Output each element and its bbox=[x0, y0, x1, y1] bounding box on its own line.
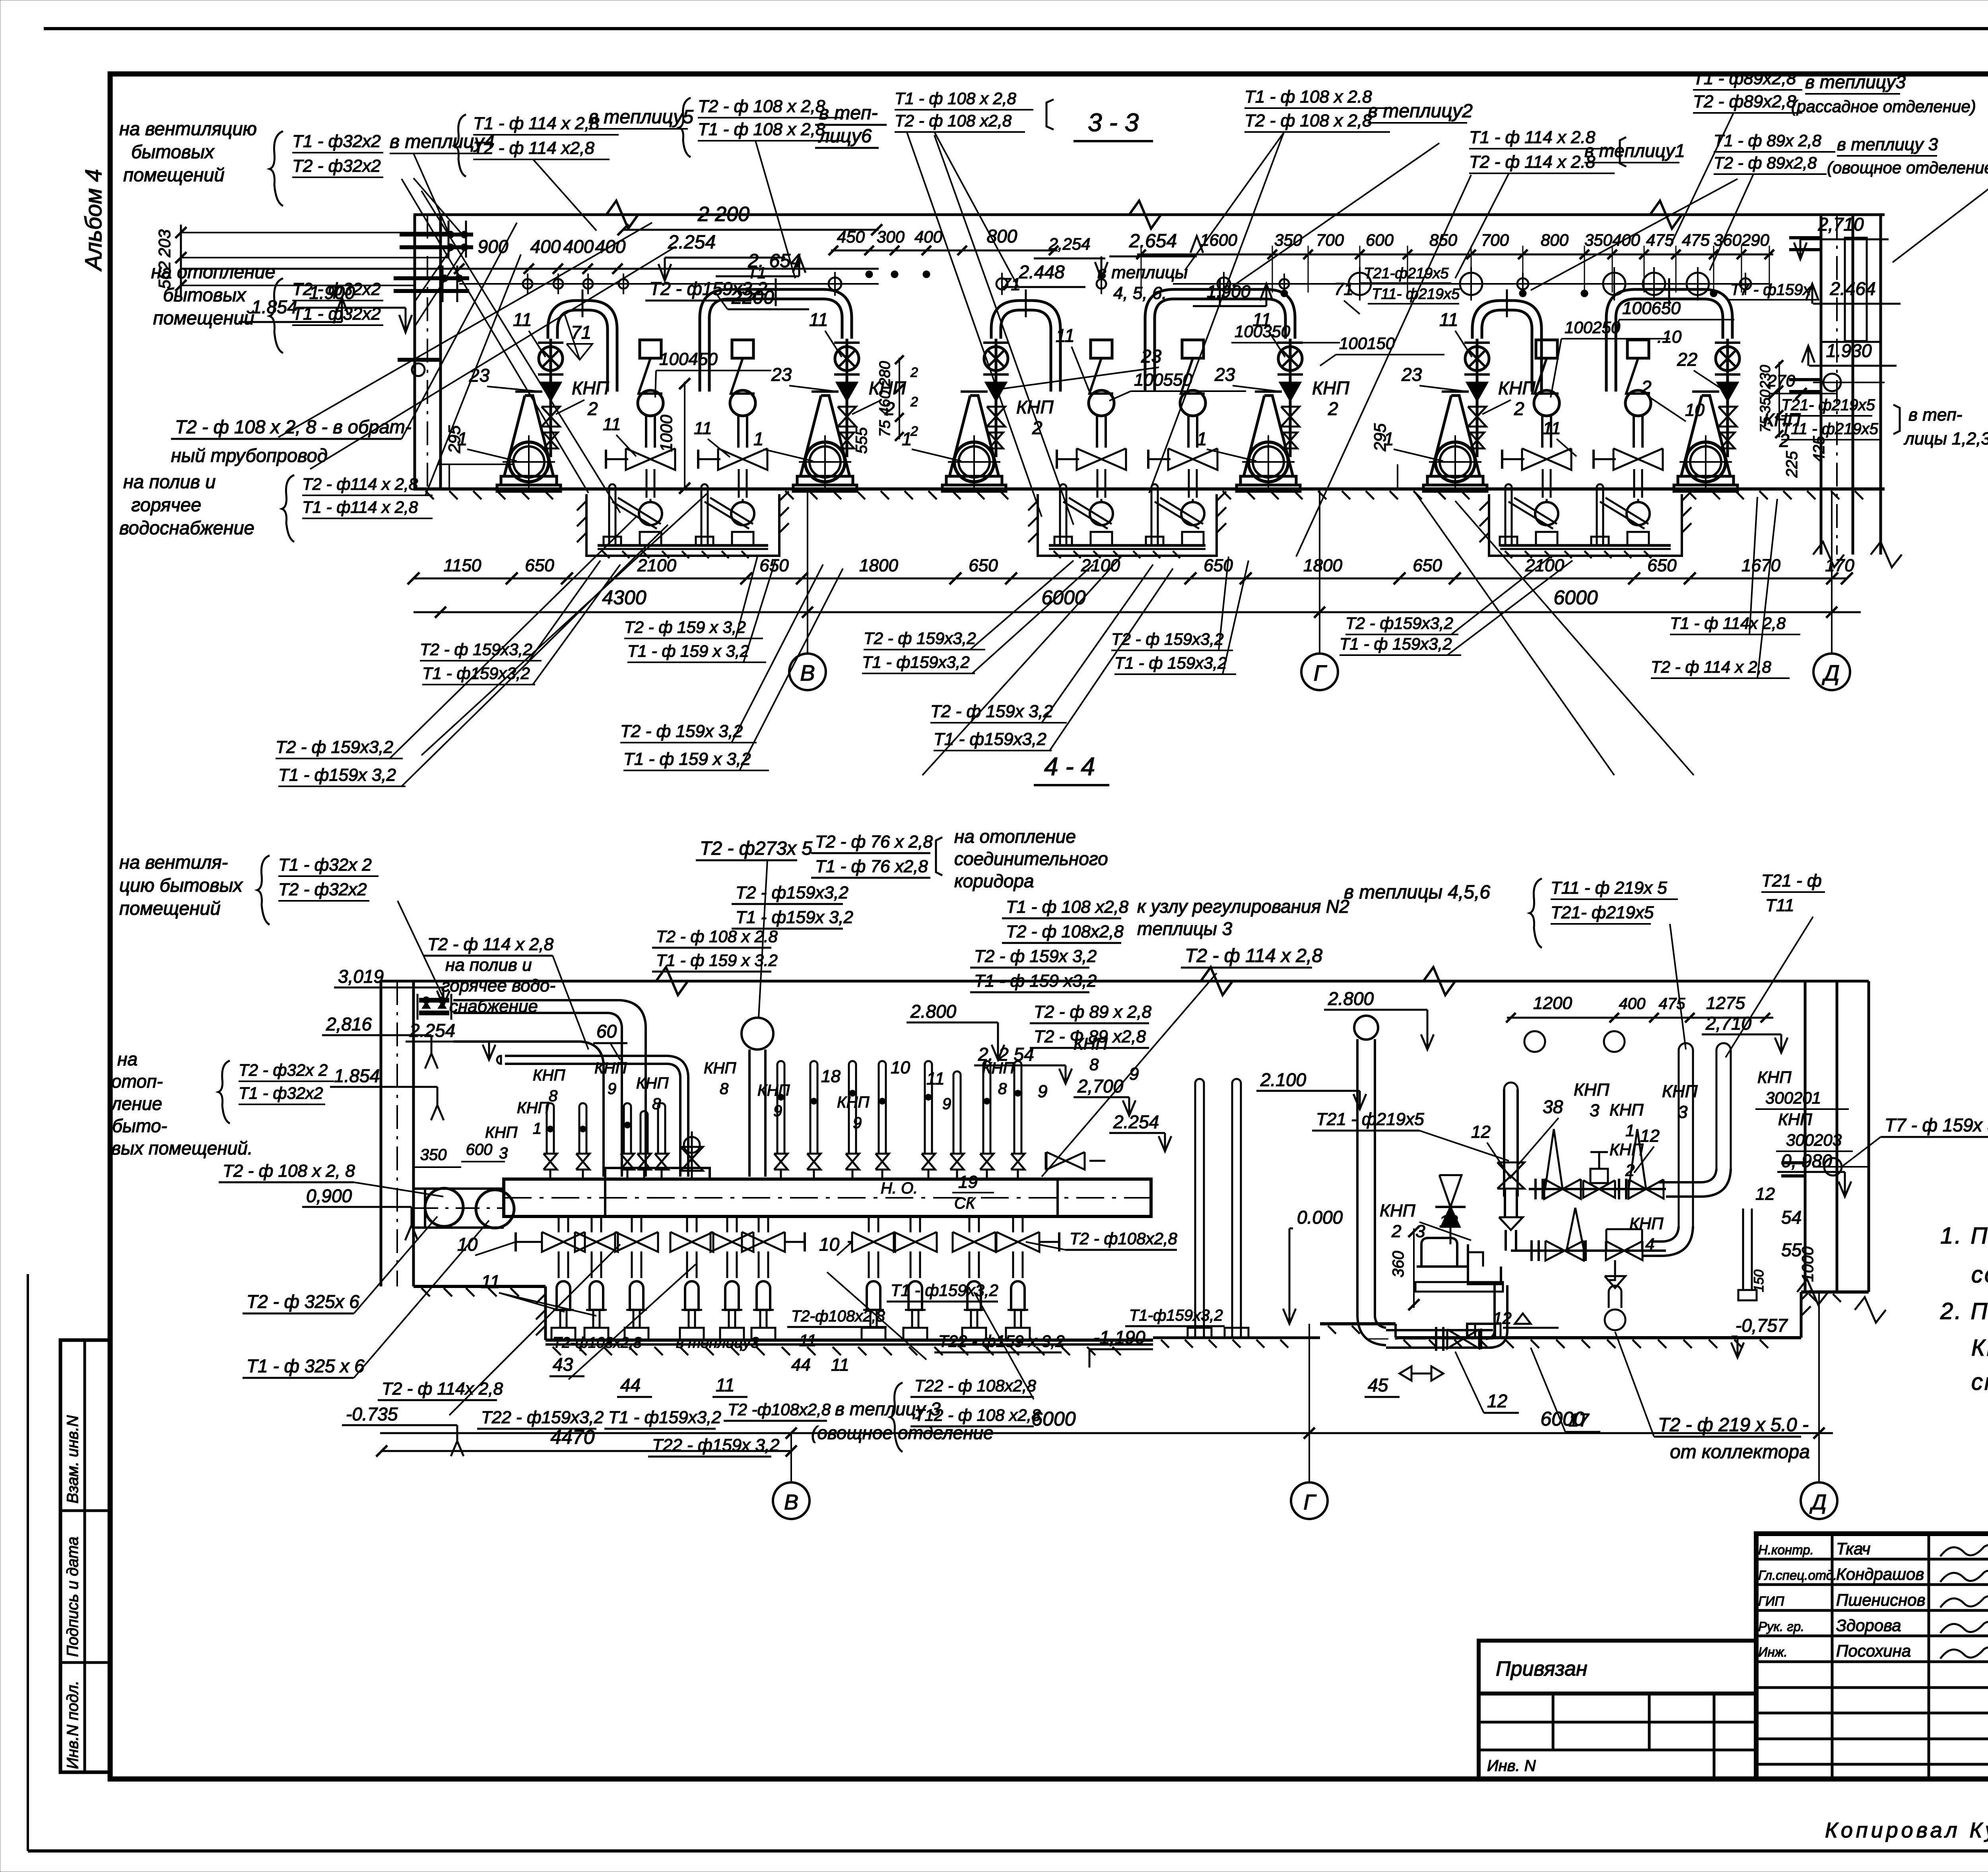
svg-text:Т2 - ф 159х 3,2: Т2 - ф 159х 3,2 bbox=[620, 722, 743, 741]
svg-text:900: 900 bbox=[478, 236, 509, 257]
svg-text:4300: 4300 bbox=[602, 586, 646, 609]
svg-text:на отопление: на отопление bbox=[151, 261, 276, 282]
svg-text:КНП: КНП bbox=[533, 1067, 565, 1084]
strainer tower at x=4120 bbox=[1594, 340, 1663, 498]
svg-text:Т1 - ф 108 х2,8: Т1 - ф 108 х2,8 bbox=[1006, 897, 1129, 917]
svg-text:400: 400 bbox=[563, 236, 594, 257]
svg-text:Т21- ф219х5: Т21- ф219х5 bbox=[1551, 903, 1654, 922]
svg-text:60: 60 bbox=[596, 1021, 617, 1042]
svg-text:Т2 - ф 114 х 2.8: Т2 - ф 114 х 2.8 bbox=[1469, 152, 1596, 172]
pipe label pair lower C bbox=[930, 565, 1173, 751]
svg-text:4: 4 bbox=[1645, 1235, 1654, 1253]
labels unit3 area bbox=[902, 275, 1360, 461]
svg-text:цию бытовых: цию бытовых bbox=[119, 875, 243, 896]
strainer tower at x=1868 bbox=[698, 340, 767, 498]
svg-text:3: 3 bbox=[1678, 1102, 1688, 1122]
label return pipeline bbox=[119, 223, 521, 542]
svg-text:1.930: 1.930 bbox=[1826, 340, 1872, 361]
svg-text:горячее: горячее bbox=[131, 494, 201, 515]
svg-text:55: 55 bbox=[1781, 1240, 1802, 1260]
svg-text:Т21-ф219х5: Т21-ф219х5 bbox=[1364, 265, 1449, 282]
svg-text:Т2 - ф32х 2: Т2 - ф32х 2 bbox=[239, 1061, 328, 1079]
svg-text:75: 75 bbox=[877, 420, 893, 437]
svg-text:23: 23 bbox=[1214, 364, 1235, 385]
section 4-4 T21 riser bbox=[1312, 1082, 1524, 1251]
svg-text:Т1 - ф 76 х2,8: Т1 - ф 76 х2,8 bbox=[815, 857, 928, 876]
svg-text:1: 1 bbox=[902, 429, 912, 449]
svg-text:360: 360 bbox=[1390, 1251, 1407, 1278]
svg-text:10: 10 bbox=[1685, 400, 1705, 420]
svg-text:475: 475 bbox=[1646, 231, 1674, 249]
svg-text:400: 400 bbox=[1619, 995, 1646, 1013]
svg-text:Т2 - ф 108 х 2,8: Т2 - ф 108 х 2,8 bbox=[698, 97, 825, 116]
svg-text:на: на bbox=[117, 1049, 138, 1069]
svg-text:295: 295 bbox=[445, 425, 464, 454]
section 4-4 right tall risers bbox=[1642, 1043, 1757, 1300]
svg-text:соответствуют спецификации.: соответствуют спецификации. bbox=[1971, 1262, 1988, 1288]
svg-text:450: 450 bbox=[837, 227, 865, 246]
pipe loop over unit 5 bbox=[1472, 289, 1541, 392]
svg-text:Т1 - ф159х3,2: Т1 - ф159х3,2 bbox=[891, 1281, 998, 1300]
svg-text:Т1 - ф159х 3,2: Т1 - ф159х 3,2 bbox=[278, 765, 396, 785]
svg-text:2: 2 bbox=[1391, 1222, 1401, 1241]
svg-text:лицу6: лицу6 bbox=[818, 126, 872, 147]
svg-text:КНП: КНП bbox=[594, 1059, 627, 1077]
svg-text:Т1 - ф 108 х 2.8: Т1 - ф 108 х 2.8 bbox=[1244, 87, 1372, 107]
svg-text:Т2 - ф273х 5: Т2 - ф273х 5 bbox=[700, 838, 812, 859]
svg-text:КНП: КНП bbox=[757, 1082, 790, 1099]
svg-text:Т1 - ф159х3,2: Т1 - ф159х3,2 bbox=[934, 729, 1046, 749]
svg-text:850: 850 bbox=[1429, 231, 1458, 249]
svg-text:54: 54 bbox=[1781, 1207, 1802, 1228]
svg-text:в теплицу1: в теплицу1 bbox=[1584, 140, 1685, 161]
section 4-4 pump with motor bbox=[1415, 1175, 1503, 1292]
svg-text:Т2 - ф159х3,2: Т2 - ф159х3,2 bbox=[736, 883, 848, 902]
svg-text:КНП: КНП bbox=[1609, 1140, 1644, 1159]
svg-text:225: 225 bbox=[1783, 451, 1801, 478]
section 4-4 right labels bbox=[1365, 1068, 1988, 1463]
svg-text:помещений: помещений bbox=[153, 307, 254, 328]
title block grid bbox=[1756, 1534, 1988, 1779]
svg-text:2.448: 2.448 bbox=[1018, 262, 1065, 282]
svg-text:Т1 - ф 159 х3,2: Т1 - ф 159 х3,2 bbox=[974, 971, 1097, 991]
svg-text:1: 1 bbox=[533, 1120, 542, 1137]
section 4-4 right wall bbox=[1781, 981, 1886, 1323]
svg-text:В: В bbox=[800, 660, 815, 685]
pump unit 5 with valve column bbox=[1423, 339, 1490, 491]
svg-text:11: 11 bbox=[481, 1271, 500, 1292]
svg-text:Т1 - ф89х2,8: Т1 - ф89х2,8 bbox=[1693, 69, 1796, 88]
svg-text:23: 23 bbox=[469, 365, 490, 386]
svg-text:в теп-: в теп- bbox=[819, 103, 878, 124]
svg-text:100550: 100550 bbox=[1134, 370, 1192, 390]
svg-text:от коллектора: от коллектора bbox=[1670, 1441, 1810, 1463]
album label bbox=[81, 169, 107, 272]
svg-text:бытовых: бытовых bbox=[131, 141, 215, 162]
svg-text:Г: Г bbox=[1314, 660, 1327, 685]
svg-text:6000: 6000 bbox=[1031, 1408, 1076, 1430]
section 4-4 left elevations bbox=[302, 966, 495, 1456]
svg-text:Т2 - ф 159х 3,2: Т2 - ф 159х 3,2 bbox=[974, 947, 1097, 966]
svg-text:650: 650 bbox=[1647, 556, 1677, 575]
svg-text:8: 8 bbox=[652, 1095, 661, 1113]
svg-text:1000: 1000 bbox=[657, 415, 676, 452]
section 3-3 left elevation dims bbox=[155, 225, 449, 296]
section 4-4 dimension rows bbox=[376, 1408, 1833, 1457]
svg-text:23: 23 bbox=[1401, 364, 1422, 385]
svg-text:350: 350 bbox=[420, 1146, 447, 1164]
svg-text:2.254: 2.254 bbox=[1113, 1112, 1159, 1132]
section 3-3 dimension chain bbox=[408, 556, 1854, 584]
svg-text:2: 2 bbox=[910, 365, 918, 380]
strainer tower at x=3000 bbox=[1148, 340, 1217, 498]
svg-text:Т22 - ф159х 3,2: Т22 - ф159х 3,2 bbox=[652, 1436, 779, 1455]
svg-text:Рук. гр.: Рук. гр. bbox=[1758, 1619, 1804, 1634]
svg-text:КНП: КНП bbox=[1609, 1100, 1644, 1119]
svg-text:в теплицы: в теплицы bbox=[1097, 263, 1188, 282]
svg-text:3: 3 bbox=[1415, 1222, 1425, 1241]
label T89 greenhouse3 seedling bbox=[1670, 69, 1976, 246]
svg-text:лицы 1,2,3: лицы 1,2,3 bbox=[1903, 429, 1988, 448]
svg-text:10: 10 bbox=[457, 1234, 478, 1255]
svg-text:Т2 - ф 159х 3,2: Т2 - ф 159х 3,2 bbox=[930, 702, 1053, 721]
svg-text:Т1 - ф 89х 2,8: Т1 - ф 89х 2,8 bbox=[1714, 131, 1822, 150]
labels unit4 area bbox=[1197, 309, 1444, 489]
text 4-4 vent households bbox=[119, 852, 445, 1002]
section 4-4 lower labels bbox=[378, 1229, 1225, 1457]
sheet outer top edge line bbox=[44, 27, 1988, 30]
svg-text:230: 230 bbox=[1757, 365, 1773, 389]
svg-text:11: 11 bbox=[809, 309, 828, 330]
svg-text:(рассадное отделение): (рассадное отделение) bbox=[1791, 97, 1976, 116]
text 4-4 heating households bbox=[110, 1049, 443, 1197]
section 4-4 upper labels bbox=[485, 826, 1349, 1177]
svg-text:Т1 - ф32х2: Т1 - ф32х2 bbox=[239, 1084, 323, 1102]
label T114 greenhouse5 bbox=[454, 107, 693, 231]
pipe label pair upper C bbox=[862, 561, 1093, 673]
svg-text:10: 10 bbox=[891, 1058, 910, 1077]
section 4-4 KNP risers with valves bbox=[544, 1061, 1025, 1179]
svg-text:1800: 1800 bbox=[1303, 556, 1342, 575]
strainer tower at x=1636 bbox=[606, 340, 675, 498]
svg-text:в теплицу5: в теплицу5 bbox=[588, 107, 693, 128]
svg-text:1670: 1670 bbox=[1741, 556, 1780, 575]
svg-text:38: 38 bbox=[1543, 1096, 1563, 1117]
svg-text:-1,190: -1,190 bbox=[1093, 1327, 1145, 1348]
svg-text:Т1 - ф114 х 2,8: Т1 - ф114 х 2,8 bbox=[302, 498, 418, 516]
svg-text:100250: 100250 bbox=[1565, 318, 1621, 337]
svg-text:Г: Г bbox=[1303, 1490, 1316, 1514]
svg-text:2.800: 2.800 bbox=[1328, 988, 1374, 1009]
label T108 greenhouse6 bbox=[679, 97, 887, 278]
assorted leader lines bbox=[278, 131, 1738, 1415]
svg-text:2: 2 bbox=[1328, 398, 1338, 419]
svg-text:ление: ление bbox=[110, 1093, 162, 1114]
svg-text:КНП: КНП bbox=[837, 1094, 870, 1111]
svg-text:Т2 - ф 89х2,8: Т2 - ф 89х2,8 bbox=[1714, 153, 1817, 172]
svg-text:8: 8 bbox=[720, 1080, 729, 1098]
svg-text:Т2 - ф32х2: Т2 - ф32х2 bbox=[278, 880, 367, 899]
svg-text:11: 11 bbox=[1056, 325, 1075, 346]
label T32x2 to greenhouse4 bbox=[270, 131, 495, 237]
svg-text:555: 555 bbox=[853, 427, 870, 454]
svg-text:300: 300 bbox=[877, 227, 905, 246]
svg-text:Н. О.: Н. О. bbox=[881, 1179, 918, 1197]
svg-text:КНП: КНП bbox=[572, 378, 609, 398]
svg-text:44: 44 bbox=[620, 1375, 641, 1395]
section 4-4 right ground pit bbox=[1320, 1290, 1869, 1348]
section 3-3 right wall bbox=[1789, 215, 1902, 567]
svg-text:44: 44 bbox=[791, 1355, 811, 1375]
svg-text:4470: 4470 bbox=[550, 1426, 594, 1448]
left margin inventory strip table bbox=[60, 1340, 110, 1772]
svg-text:460: 460 bbox=[877, 390, 893, 415]
svg-text:КНП: КНП bbox=[704, 1059, 736, 1077]
strainer tower at x=2770 bbox=[1057, 340, 1126, 498]
svg-text:1.854: 1.854 bbox=[251, 297, 297, 317]
svg-text:12: 12 bbox=[1755, 1184, 1775, 1204]
pipe label pair upper F bbox=[1651, 497, 1800, 678]
svg-text:2: 2 bbox=[1514, 398, 1524, 419]
svg-text:Т2 - Ф 89 х2,8: Т2 - Ф 89 х2,8 bbox=[1034, 1027, 1146, 1046]
svg-text:3 - 3: 3 - 3 bbox=[1088, 108, 1139, 137]
svg-text:Инв.N подл.: Инв.N подл. bbox=[64, 1680, 82, 1769]
label T89 greenhouse3 vegetable bbox=[1710, 131, 1988, 270]
svg-text:4 - 4: 4 - 4 bbox=[1044, 752, 1095, 781]
svg-text:650: 650 bbox=[525, 556, 554, 575]
section 4-4 watering pipe bbox=[497, 1021, 688, 1177]
svg-text:23: 23 bbox=[771, 364, 792, 385]
labels unit5 area bbox=[1384, 309, 1670, 461]
pump unit 4 with valve column bbox=[1237, 339, 1303, 491]
svg-text:Т1 - ф 108 х 2,8: Т1 - ф 108 х 2,8 bbox=[698, 120, 825, 139]
svg-text:бытовых: бытовых bbox=[163, 284, 247, 305]
section 3-3 mid dims bbox=[829, 226, 1203, 287]
svg-text:2,816: 2,816 bbox=[326, 1014, 372, 1034]
pipe label pair lower B bbox=[620, 565, 843, 770]
labels unit2 area bbox=[645, 264, 918, 461]
svg-text:Инж.: Инж. bbox=[1758, 1645, 1788, 1659]
svg-text:в теплицу3: в теплицу3 bbox=[1805, 72, 1906, 92]
section 3-3 top pipe line bbox=[414, 201, 1885, 229]
svg-text:КНП: КНП bbox=[517, 1099, 549, 1117]
svg-text:Подпись и дата: Подпись и дата bbox=[64, 1536, 82, 1657]
svg-text:В: В bbox=[784, 1490, 798, 1514]
svg-text:2.100: 2.100 bbox=[1260, 1069, 1307, 1090]
svg-text:отоп-: отоп- bbox=[111, 1071, 163, 1092]
section 4-4 riser T2-273 bbox=[696, 838, 812, 1177]
svg-text:Т1 - ф32х 2: Т1 - ф32х 2 bbox=[278, 855, 372, 875]
svg-text:12: 12 bbox=[1439, 1212, 1458, 1230]
svg-text:КНП: КНП bbox=[1380, 1201, 1415, 1220]
svg-text:Т11 - ф219х5: Т11 - ф219х5 bbox=[1781, 420, 1879, 438]
section 4-4 title bbox=[1034, 752, 1109, 785]
pump unit 6 with valve column bbox=[1674, 339, 1740, 491]
svg-text:1600: 1600 bbox=[1200, 231, 1237, 249]
svg-text:11: 11 bbox=[1252, 309, 1272, 330]
svg-text:теплицы 3: теплицы 3 bbox=[1137, 918, 1233, 939]
svg-text:6000: 6000 bbox=[1553, 586, 1598, 609]
svg-text:Т1 - ф 159 х 3.2: Т1 - ф 159 х 3.2 bbox=[656, 951, 778, 970]
svg-text:2 200: 2 200 bbox=[697, 203, 749, 226]
svg-text:600: 600 bbox=[466, 1141, 493, 1158]
svg-text:КНП: КНП bbox=[1312, 378, 1349, 398]
svg-text:Т2 - ф 108х2,8: Т2 - ф 108х2,8 bbox=[1006, 922, 1124, 941]
section 4-4 right top labels bbox=[1344, 871, 1825, 1057]
svg-text:1: 1 bbox=[1384, 429, 1394, 449]
svg-text:Т1 - ф 159 х 3,2: Т1 - ф 159 х 3,2 bbox=[623, 749, 751, 769]
svg-text:Пшениснов: Пшениснов bbox=[1836, 1591, 1926, 1609]
section 3-3 left dims bbox=[181, 203, 882, 332]
svg-text:71: 71 bbox=[1334, 279, 1353, 299]
svg-text:350: 350 bbox=[1757, 390, 1773, 413]
svg-text:КНП и средств автоматики: КНП и средств автоматики bbox=[1971, 1335, 1988, 1361]
svg-text:170: 170 bbox=[1825, 556, 1854, 575]
section 4-4 left ground and pit bbox=[414, 1286, 1153, 1355]
svg-text:Т11 - ф 219х 5: Т11 - ф 219х 5 bbox=[1551, 878, 1667, 898]
svg-text:1.900: 1.900 bbox=[309, 282, 355, 303]
svg-text:в теп-: в теп- bbox=[1908, 405, 1962, 425]
section 4-4 pump columns below manifold bbox=[516, 1216, 1059, 1340]
svg-text:Т2 - ф 108 х 2.8: Т2 - ф 108 х 2.8 bbox=[656, 927, 778, 946]
svg-text:Т2 - ф32х2: Т2 - ф32х2 bbox=[292, 156, 381, 176]
section 4-4 axis circles bbox=[773, 1292, 1837, 1519]
svg-text:9: 9 bbox=[853, 1114, 862, 1132]
svg-text:коридора: коридора bbox=[954, 871, 1034, 891]
pipe label pair upper B bbox=[624, 557, 775, 662]
svg-text:1: 1 bbox=[1625, 1121, 1635, 1140]
svg-text:Инв. N: Инв. N bbox=[1487, 1757, 1536, 1775]
svg-text:в теплицу 3: в теплицу 3 bbox=[1837, 135, 1938, 154]
text vent household rooms bbox=[119, 118, 257, 185]
svg-text:Т2 - ф 114 х 2,8: Т2 - ф 114 х 2,8 bbox=[427, 935, 554, 954]
pit 2610-3060 with drainage pumps bbox=[1028, 484, 1226, 558]
svg-text:КНП: КНП bbox=[1498, 378, 1536, 398]
svg-text:Т7 - ф 159х 3, 2: Т7 - ф 159х 3, 2 bbox=[1885, 1115, 1988, 1135]
svg-text:11: 11 bbox=[513, 309, 532, 330]
section 3-3 title bbox=[1074, 108, 1153, 141]
svg-text:см. листы 11, 12.: см. листы 11, 12. bbox=[1971, 1369, 1988, 1395]
pipe loop over unit 3 bbox=[991, 289, 1060, 392]
section 3-3 axis circles bbox=[789, 489, 1850, 690]
pipe label pair upper E bbox=[1340, 557, 1573, 655]
svg-text:соединительного: соединительного bbox=[954, 848, 1108, 869]
svg-text:650: 650 bbox=[969, 556, 998, 575]
svg-text:3,019: 3,019 bbox=[338, 966, 384, 987]
svg-text:19: 19 bbox=[958, 1172, 978, 1192]
svg-text:помещений: помещений bbox=[119, 898, 221, 919]
svg-text:2100: 2100 bbox=[637, 556, 676, 575]
svg-text:Т2-ф108х2,8: Т2-ф108х2,8 bbox=[553, 1335, 642, 1351]
svg-text:Т1 - ф159х 3,2: Т1 - ф159х 3,2 bbox=[736, 908, 853, 927]
svg-text:290: 290 bbox=[1741, 231, 1770, 249]
svg-text:475: 475 bbox=[1682, 231, 1710, 249]
svg-text:Т1 - ф32х2: Т1 - ф32х2 bbox=[292, 132, 381, 151]
svg-text:Н.контр.: Н.контр. bbox=[1758, 1542, 1814, 1557]
svg-text:800: 800 bbox=[1541, 231, 1569, 249]
section 4-4 T325 mains bbox=[243, 1141, 514, 1378]
svg-text:Гл.спец.отд.: Гл.спец.отд. bbox=[1758, 1568, 1837, 1583]
svg-text:9: 9 bbox=[608, 1080, 616, 1098]
svg-text:45: 45 bbox=[1368, 1375, 1388, 1395]
svg-text:2. Перечень отборных устр: 2. Перечень отборных устройств bbox=[1940, 1298, 1988, 1324]
svg-text:КНП: КНП bbox=[1016, 397, 1054, 417]
svg-text:8: 8 bbox=[998, 1080, 1007, 1098]
svg-text:9: 9 bbox=[773, 1102, 782, 1120]
svg-text:Посохина: Посохина bbox=[1836, 1641, 1911, 1660]
section 4-4 right valve cluster bbox=[1511, 1129, 1666, 1330]
svg-text:1150: 1150 bbox=[444, 556, 481, 575]
svg-text:18: 18 bbox=[821, 1067, 841, 1086]
svg-text:23: 23 bbox=[1141, 346, 1162, 367]
pipe loop bridging to unit 6 bbox=[1606, 278, 1732, 392]
svg-text:800: 800 bbox=[987, 226, 1017, 246]
svg-text:Т1-ф159х3,2: Т1-ф159х3,2 bbox=[1129, 1307, 1223, 1324]
svg-text:8: 8 bbox=[549, 1087, 558, 1105]
svg-text:Т2 - ф 114 х 2,8: Т2 - ф 114 х 2,8 bbox=[1185, 945, 1322, 966]
strainer tower at x=3890 bbox=[1502, 340, 1571, 498]
svg-text:Т2 - ф 108 х2,8: Т2 - ф 108 х2,8 bbox=[895, 111, 1012, 130]
svg-text:КНП: КНП bbox=[1778, 1110, 1812, 1129]
svg-text:Т1 - ф159х3,2: Т1 - ф159х3,2 bbox=[862, 653, 970, 671]
svg-text:2: 2 bbox=[910, 394, 918, 409]
svg-text:Т11: Т11 bbox=[1765, 896, 1794, 915]
svg-text:6000: 6000 bbox=[1540, 1408, 1584, 1430]
svg-text:СК: СК bbox=[954, 1195, 976, 1212]
svg-text:Т2 -ф108х2,8: Т2 -ф108х2,8 bbox=[728, 1400, 831, 1419]
svg-text:на отопление: на отопление bbox=[954, 826, 1076, 847]
svg-text:2.800: 2.800 bbox=[910, 1001, 957, 1022]
svg-text:1. Позиции оборудования,: 1. Позиции оборудования, арматуры bbox=[1940, 1223, 1988, 1249]
svg-text:Т2 - ф 89 х 2,8: Т2 - ф 89 х 2,8 bbox=[1034, 1002, 1152, 1022]
svg-text:Кондрашов: Кондрашов bbox=[1836, 1565, 1924, 1583]
svg-text:100650: 100650 bbox=[1622, 299, 1681, 318]
svg-text:Т1 - ф 108 х 2,8: Т1 - ф 108 х 2,8 bbox=[895, 89, 1017, 108]
svg-text:1: 1 bbox=[1197, 429, 1207, 449]
svg-text:Т2 - ф 114 х 2,8: Т2 - ф 114 х 2,8 bbox=[1651, 658, 1771, 676]
section 3-3 instrument circles bbox=[459, 267, 1769, 301]
svg-text:1275: 1275 bbox=[1706, 993, 1745, 1013]
svg-text:Копировал Кухтинова: Копировал Кухтинова bbox=[1825, 1818, 1988, 1842]
svg-text:Т1 - ф 159 х 3,2: Т1 - ф 159 х 3,2 bbox=[627, 642, 749, 660]
svg-text:12: 12 bbox=[1487, 1391, 1507, 1411]
svg-text:Д: Д bbox=[1809, 1490, 1827, 1514]
svg-text:Т21- ф219х5: Т21- ф219х5 bbox=[1781, 396, 1875, 414]
section 3-3 left wall with stub pipes bbox=[394, 215, 473, 489]
svg-text:400: 400 bbox=[914, 227, 943, 246]
svg-text:Т1 - ф 114 х 2,8: Т1 - ф 114 х 2,8 bbox=[473, 114, 600, 133]
svg-text:11: 11 bbox=[694, 419, 712, 438]
svg-text:на вентиля-: на вентиля- bbox=[119, 852, 228, 873]
svg-text:Т1 - ф 325 х 6: Т1 - ф 325 х 6 bbox=[247, 1356, 365, 1376]
svg-text:Т2 - ф 114 х2,8: Т2 - ф 114 х2,8 bbox=[473, 138, 595, 158]
svg-text:КНП: КНП bbox=[1629, 1214, 1664, 1233]
section 4-4 collector manifold bbox=[504, 1168, 1151, 1216]
label T114 greenhouse1 bbox=[1455, 128, 1685, 278]
svg-text:2.254: 2.254 bbox=[668, 232, 716, 253]
pit 3745-4230 with drainage pumps bbox=[1479, 484, 1691, 558]
svg-text:Т2 - ф 108 х 2, 8 - в обрат-: Т2 - ф 108 х 2, 8 - в обрат- bbox=[175, 416, 411, 437]
pipe label pair upper D bbox=[1111, 557, 1248, 674]
svg-text:11: 11 bbox=[799, 1331, 817, 1350]
svg-text:350: 350 bbox=[1584, 231, 1613, 249]
pipe loop over unit 1 bbox=[548, 289, 617, 392]
svg-text:12: 12 bbox=[1471, 1122, 1491, 1142]
section 4-4 ceiling line bbox=[380, 967, 1869, 995]
svg-text:КНП: КНП bbox=[1574, 1080, 1609, 1100]
svg-text:300203: 300203 bbox=[1786, 1131, 1842, 1149]
svg-text:1: 1 bbox=[753, 429, 764, 449]
